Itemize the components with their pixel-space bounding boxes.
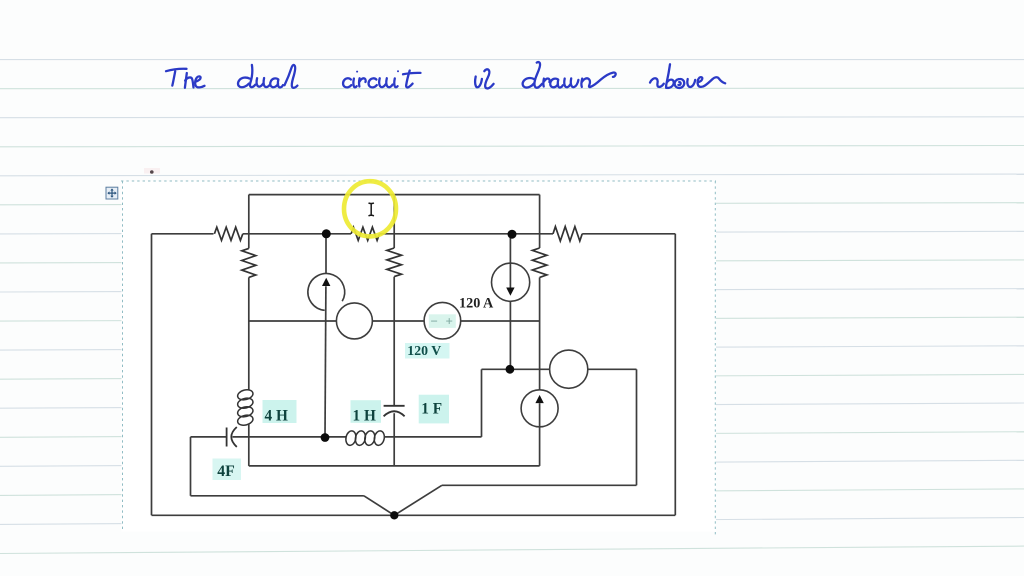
- wire 4F left connection: [191, 436, 227, 438]
- resistor R5 (middle vertical): [387, 248, 402, 277]
- wire vertical x=249 bottom: [248, 425, 250, 466]
- wire outer bottom rail: [152, 514, 676, 516]
- svg-text:120 A: 120 A: [459, 295, 494, 311]
- current source (up arrow, bottom right): [521, 390, 558, 427]
- wire R5 segment 2: [233, 436, 347, 438]
- wire R5 segment 3: [384, 436, 482, 438]
- svg-text:4F: 4F: [217, 463, 235, 480]
- capacitor 4F plates: [226, 428, 228, 447]
- wire lower-middle rail left leg: [481, 369, 483, 437]
- svg-text:4 H: 4 H: [265, 408, 288, 425]
- resistor R2 (top middle horizontal): [351, 227, 379, 240]
- label 120 V: [405, 343, 450, 359]
- node C (lower middle rail): [506, 365, 515, 374]
- resistor R3 (top right horizontal): [553, 227, 582, 241]
- node E (ground, bottom rail): [390, 511, 398, 519]
- wire lower-middle rail segment 1: [482, 368, 550, 370]
- wire top rail segment 3: [380, 233, 554, 235]
- wire top rail segment 4: [582, 233, 675, 235]
- wire vertical x=249 top: [248, 195, 250, 249]
- current source I1 (up arrow, broken outline): [308, 274, 345, 311]
- wire vertical x=394 bottom: [393, 413, 395, 466]
- selection dashed border: [121, 181, 716, 535]
- selected image white canvas: [122, 181, 717, 532]
- wire diagonal from ground node right: [394, 485, 442, 515]
- wire vertical x=326 (through up current source): [325, 234, 327, 274]
- capacitor 1F plates: [384, 405, 405, 407]
- yellow highlighter circle cursor: [344, 181, 396, 236]
- wire middle rail segment 1: [249, 320, 337, 322]
- move handle icon: [106, 187, 118, 199]
- wire lower shelf R8: [191, 495, 364, 497]
- svg-text:+: +: [446, 314, 453, 329]
- inductor 4H coil: [237, 388, 254, 401]
- source circle (unlabeled, on middle rail): [336, 303, 372, 339]
- I-beam text cursor: [369, 203, 374, 216]
- wire top inner rail: [249, 194, 540, 196]
- wire left outer vertical: [151, 234, 153, 516]
- resistor R6 (right vertical): [532, 248, 546, 277]
- wire inner bottom rail R6: [249, 465, 540, 467]
- label 4 H: [263, 400, 297, 423]
- wire diagonal to ground node left: [364, 496, 394, 516]
- wire vertical x=510 (through down current source): [509, 234, 511, 288]
- wire 4F left vertical: [190, 437, 192, 496]
- label 4F: [213, 459, 242, 481]
- wire middle rail segment 2: [372, 320, 424, 322]
- voltage source 120V (- +): [424, 302, 461, 339]
- handwritten text: The dual circuit is drawn above: [166, 62, 725, 88]
- label 1 F: [419, 395, 449, 424]
- wire right outer vertical: [674, 234, 676, 516]
- wire top rail segment 2: [243, 233, 351, 235]
- svg-text:−: −: [431, 314, 438, 329]
- label 1 H: [351, 400, 382, 423]
- wire vertical x=394 middle: [393, 277, 395, 406]
- wire main top rail left segment: [152, 233, 214, 235]
- wire vertical x=394 top: [393, 195, 395, 248]
- wire lower-middle rail segment 2: [588, 368, 637, 370]
- svg-text:120 V: 120 V: [407, 343, 441, 358]
- wire right drop from rail to lower shelf: [636, 369, 638, 485]
- wire vertical x=540 top: [539, 195, 541, 248]
- svg-text:1 H: 1 H: [353, 407, 376, 424]
- node D (1H rail): [321, 433, 330, 442]
- node A (top rail left): [322, 229, 331, 238]
- stray cursor dot: [144, 168, 160, 174]
- svg-text:1 F: 1 F: [421, 400, 442, 417]
- wire vertical x=540 bottom: [539, 277, 541, 390]
- resistor R4 (left vertical): [242, 248, 256, 277]
- inductor 1H coil: [345, 430, 358, 446]
- wire vertical x=249 middle: [248, 277, 250, 390]
- wire shelf R7: [442, 484, 637, 486]
- source circle (unlabeled, on lower rail): [550, 350, 588, 388]
- resistor R1 (top left horizontal): [214, 227, 242, 240]
- wire middle rail segment 3: [461, 320, 540, 322]
- node B (top rail right): [508, 230, 517, 239]
- current source 120A (down arrow): [492, 263, 530, 301]
